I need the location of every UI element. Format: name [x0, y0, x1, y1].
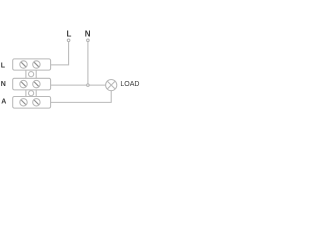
svg-text:L: L: [1, 62, 6, 69]
svg-text:N: N: [85, 30, 91, 39]
svg-text:LOAD: LOAD: [120, 81, 139, 88]
svg-text:N: N: [1, 81, 6, 88]
svg-text:L: L: [67, 30, 72, 39]
svg-text:A: A: [1, 99, 6, 106]
